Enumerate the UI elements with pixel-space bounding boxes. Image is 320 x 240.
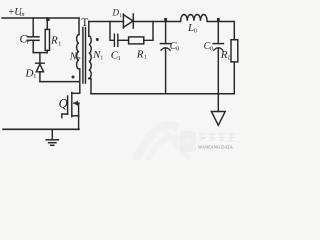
- wire secondary top rail: [89, 21, 124, 23]
- svg-text:R: R: [220, 49, 228, 61]
- svg-text:in: in: [20, 12, 25, 18]
- transformer primary winding NP: [77, 35, 79, 69]
- channel bar: [71, 93, 73, 117]
- source stub: [72, 115, 79, 117]
- svg-text:P: P: [76, 57, 81, 63]
- wire primary bottom lead: [79, 69, 81, 93]
- svg-text:0: 0: [194, 28, 197, 34]
- junction tick C0 second: [217, 18, 220, 22]
- inductor L0: [181, 14, 207, 34]
- diode D1 (output rectifier): [112, 8, 134, 29]
- resistor R1 (snubber): [129, 22, 153, 62]
- watermark logo: [180, 131, 235, 152]
- diode D1 (clamp): [25, 53, 45, 82]
- svg-text:L: L: [227, 56, 232, 62]
- svg-text:WANFANG DATA: WANFANG DATA: [198, 145, 234, 150]
- svg-text:1: 1: [58, 42, 61, 48]
- label N1: [92, 50, 103, 62]
- ground: [46, 129, 58, 145]
- watermark swoosh: [135, 124, 190, 160]
- wire anode to drain node: [40, 81, 80, 83]
- label NP: [69, 52, 81, 64]
- svg-text:1: 1: [118, 56, 121, 62]
- node secondary dot: [96, 38, 99, 41]
- svg-text:1: 1: [119, 13, 122, 19]
- transformer core: [82, 28, 84, 84]
- capacitor C0 (output cap): [204, 22, 224, 94]
- transformer secondary winding N1: [88, 22, 90, 37]
- svg-text:0: 0: [176, 47, 179, 53]
- svg-text:Q: Q: [59, 96, 68, 110]
- resistor RL (load): [220, 22, 238, 94]
- ground arrow (output common): [211, 94, 225, 126]
- svg-text:D: D: [25, 68, 34, 80]
- wire bottom rail (input return): [3, 128, 79, 130]
- wire rail after diode: [133, 21, 180, 23]
- svg-text:0: 0: [210, 47, 213, 53]
- svg-text:1: 1: [144, 55, 147, 61]
- capacitor Cr: [20, 18, 40, 53]
- svg-text:R: R: [136, 49, 144, 61]
- node primary dot: [72, 76, 75, 79]
- gate bar: [67, 96, 69, 114]
- body arrow: [74, 102, 79, 104]
- body-source vertical: [78, 103, 80, 116]
- wire secondary bottom lead: [89, 79, 91, 94]
- capacitor C1: [111, 34, 129, 62]
- gate lead: [62, 114, 68, 118]
- junction dot: [46, 18, 49, 21]
- wire source down: [78, 116, 80, 130]
- junction tick C0 first: [164, 18, 167, 22]
- wire rail after inductor: [207, 21, 234, 23]
- svg-text:D: D: [112, 8, 120, 18]
- capacitor C0 (first filter cap): [160, 22, 179, 94]
- svg-text:1: 1: [100, 56, 103, 62]
- wire primary top lead: [78, 18, 80, 35]
- svg-text:1: 1: [33, 74, 36, 80]
- transistor Q (MOSFET): [59, 93, 80, 118]
- node +Uin label: [8, 7, 25, 18]
- wire RC bottom: [33, 52, 47, 54]
- wire bottom rail (output return): [91, 93, 234, 95]
- svg-text:R: R: [50, 35, 58, 47]
- resistor R1 (clamp): [45, 18, 61, 53]
- snubber tap wire: [110, 22, 114, 41]
- wire top rail (input +): [2, 17, 79, 19]
- drain stub: [72, 92, 80, 94]
